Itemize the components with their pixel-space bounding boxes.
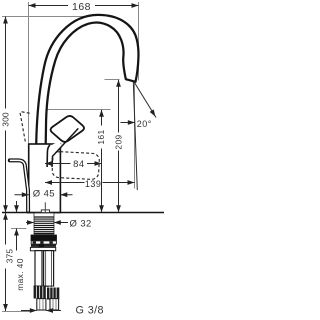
svg-text:max. 40: max. 40 [15, 258, 25, 291]
svg-text:168: 168 [72, 1, 91, 13]
svg-text:20°: 20° [137, 119, 152, 129]
svg-text:161: 161 [96, 129, 106, 144]
svg-text:84: 84 [73, 159, 85, 170]
svg-text:G 3/8: G 3/8 [76, 305, 104, 317]
svg-text:300: 300 [1, 112, 11, 127]
svg-text:139: 139 [85, 179, 102, 189]
svg-text:375: 375 [4, 249, 14, 264]
svg-text:Ø 32: Ø 32 [70, 218, 92, 229]
svg-text:209: 209 [113, 134, 123, 149]
svg-text:Ø 45: Ø 45 [33, 188, 55, 199]
